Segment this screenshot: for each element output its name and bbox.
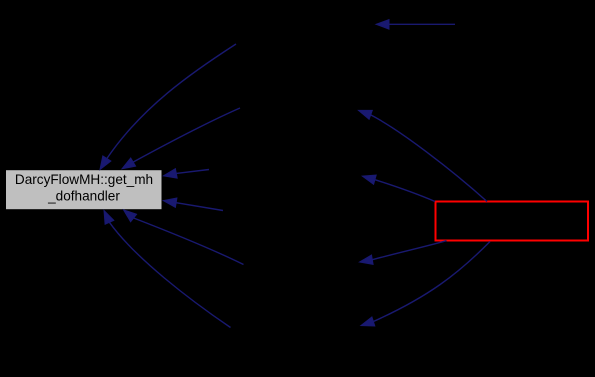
node: truncated caller (red outline) — [436, 202, 589, 241]
edge R2 rednode -> caller5 — [360, 241, 447, 265]
svg-text:_dofhandler: _dofhandler — [47, 189, 120, 204]
edge R3 rednode -> caller8 — [361, 242, 490, 327]
edge E4 caller4 -> get_mh_dofhandler — [163, 198, 223, 211]
node: DarcyFlowMH::get_mh_dofhandler (current node, grey) — [6, 170, 163, 210]
edge E1 caller1 -> get_mh_dofhandler — [100, 44, 236, 170]
edge R4 rednode -> caller2 — [359, 110, 488, 201]
edge R1 rednode -> caller3 — [362, 175, 435, 201]
edge E2 caller2 -> get_mh_dofhandler — [122, 108, 240, 169]
edge E6 caller6 -> get_mh_dofhandler — [124, 210, 244, 265]
edge E3 caller3 -> get_mh_dofhandler — [164, 169, 210, 178]
edge H1 caller7 -> caller1 — [376, 20, 455, 30]
svg-text:DarcyFlowMH::get_mh: DarcyFlowMH::get_mh — [15, 172, 153, 187]
edge E5 caller5 -> get_mh_dofhandler — [104, 211, 231, 328]
